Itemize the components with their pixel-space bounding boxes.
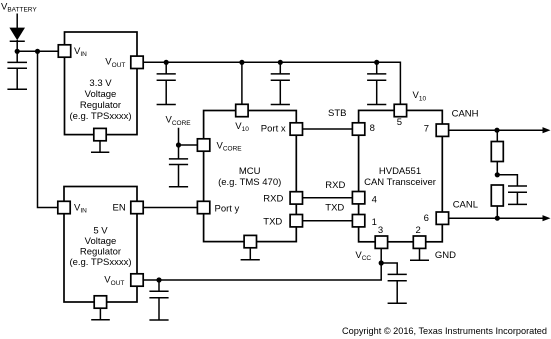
ground C6: [149, 319, 168, 321]
svg-text:6: 6: [424, 213, 429, 224]
diode D1: [9, 28, 25, 52]
svg-text:(e.g. TPSxxxx): (e.g. TPSxxxx): [69, 257, 131, 268]
pin V10 U3: [235, 104, 249, 133]
capacitor C2: [157, 62, 176, 104]
capacitor C8 split termination: [508, 186, 527, 204]
svg-text:TXD: TXD: [325, 202, 344, 213]
wire 3.3V rail to pin 5: [143, 62, 400, 104]
capacitor C3: [271, 62, 290, 104]
junction node VCC branch: [379, 260, 384, 265]
capacitor C5 VCORE: [169, 145, 188, 187]
svg-text:CANL: CANL: [453, 200, 478, 211]
pin VCORE U3: [197, 139, 242, 153]
junction node V10 branch: [239, 60, 244, 65]
svg-text:EN: EN: [113, 202, 126, 213]
pin VOUT U2: [104, 274, 143, 287]
pin GND U2: [94, 296, 106, 308]
svg-text:Port x: Port x: [261, 123, 286, 134]
svg-text:(e.g. TPSxxxx): (e.g. TPSxxxx): [69, 111, 131, 122]
wire node to C8: [497, 175, 517, 186]
pin 6 CANL U4: [424, 212, 449, 224]
svg-text:HVDA551: HVDA551: [379, 166, 421, 177]
junction node CANL: [495, 216, 500, 221]
MCU U3: [204, 111, 297, 242]
pin Port x U3: [261, 123, 303, 135]
junction node C3: [278, 60, 283, 65]
capacitor C1 battery input: [7, 51, 27, 89]
svg-text:5 V: 5 V: [93, 226, 108, 237]
pin 8 STB U4: [352, 123, 374, 135]
junction node C4: [374, 60, 379, 65]
pin 3 VCC U4: [375, 225, 387, 249]
svg-text:CANH: CANH: [452, 108, 479, 119]
svg-text:RXD: RXD: [325, 180, 345, 191]
wire 5V rail to VCC: [143, 249, 381, 280]
capacitor C7 VCC: [388, 274, 407, 303]
ground U3: [241, 248, 260, 260]
junction node split termination: [495, 172, 500, 177]
svg-text:2: 2: [416, 225, 421, 236]
ground C3: [271, 104, 290, 106]
junction node battery rail: [15, 49, 20, 54]
pin TXD U3: [263, 215, 302, 228]
wire VCC branch to C7: [381, 263, 397, 274]
resistor R1: [491, 142, 503, 162]
pin RXD U3: [263, 192, 302, 205]
svg-text:Regulator: Regulator: [80, 247, 121, 258]
junction node CANH: [494, 128, 499, 133]
svg-text:3: 3: [378, 225, 383, 236]
wire CANL: [449, 217, 543, 219]
svg-text:(e.g. TMS 470): (e.g. TMS 470): [218, 177, 281, 188]
ground C8: [508, 203, 527, 205]
svg-text:Copyright © 2016, Texas Instru: Copyright © 2016, Texas Instruments Inco…: [342, 326, 547, 337]
pin 5 V10 U4: [394, 104, 406, 128]
pin Port y U3: [197, 201, 239, 214]
wire EN to Port y: [143, 207, 197, 209]
wire 5V branch down to 5V VIN: [38, 51, 59, 207]
pin GND U3: [244, 235, 256, 247]
wire CANH to R1: [496, 130, 498, 141]
pin 7 CANH U4: [424, 124, 449, 137]
svg-text:5: 5: [397, 117, 402, 128]
svg-text:STB: STB: [328, 108, 346, 119]
svg-text:Port y: Port y: [215, 204, 240, 215]
wire RXD: [303, 197, 353, 199]
junction node VCORE: [176, 142, 181, 147]
svg-text:Voltage: Voltage: [85, 236, 117, 247]
svg-text:7: 7: [424, 124, 429, 135]
arrow CANH: [543, 127, 551, 133]
svg-text:CAN Transceiver: CAN Transceiver: [364, 177, 436, 188]
pin 4 RXD U4: [352, 192, 376, 206]
regulator U2 5V: [64, 187, 137, 303]
transceiver U4 HVDA551: [359, 110, 443, 241]
svg-text:8: 8: [370, 123, 375, 134]
pin VIN U2: [58, 201, 87, 214]
svg-text:Regulator: Regulator: [80, 100, 121, 111]
capacitor C4: [367, 62, 386, 104]
pin 1 TXD U4: [352, 215, 376, 228]
ground C5: [169, 186, 188, 188]
wire VCORE node: [179, 128, 198, 145]
ground U2: [91, 308, 110, 320]
ground C1: [7, 88, 27, 90]
svg-text:1: 1: [372, 217, 377, 228]
svg-text:RXD: RXD: [263, 193, 283, 204]
pin GND U1: [94, 128, 106, 140]
wire R1 to node: [496, 162, 498, 175]
pin VOUT U1: [105, 56, 143, 69]
wire TXD: [303, 220, 353, 222]
svg-text:3.3 V: 3.3 V: [89, 78, 112, 89]
junction node C2: [164, 60, 169, 65]
ground C2: [157, 104, 176, 106]
wire battery rail to 3.3V VIN: [17, 50, 58, 52]
svg-text:GND: GND: [435, 250, 456, 261]
svg-text:TXD: TXD: [263, 216, 282, 227]
ground pin 2: [410, 248, 429, 260]
svg-text:MCU: MCU: [239, 166, 261, 177]
pin VIN U1: [58, 45, 87, 58]
wire CANH: [449, 129, 543, 131]
svg-text:Voltage: Voltage: [85, 89, 117, 100]
wire V10 branch to MCU: [241, 62, 243, 104]
wire Port x to pin 8: [303, 128, 353, 130]
wire VBATTERY to diode anode: [16, 14, 18, 29]
svg-text:4: 4: [372, 194, 377, 205]
wire R2 to CANL: [496, 206, 498, 218]
ground C4: [367, 104, 386, 106]
ground U1: [91, 141, 109, 152]
resistor R2: [491, 185, 503, 206]
pin 2 GND U4: [413, 225, 425, 249]
pin EN U2: [113, 201, 144, 213]
regulator U1 3.3V: [65, 32, 138, 135]
arrow CANL: [543, 215, 551, 221]
junction node 5V branch: [35, 49, 40, 54]
capacitor C6: [149, 280, 168, 320]
junction node C6: [156, 277, 161, 282]
ground C7: [388, 302, 407, 304]
